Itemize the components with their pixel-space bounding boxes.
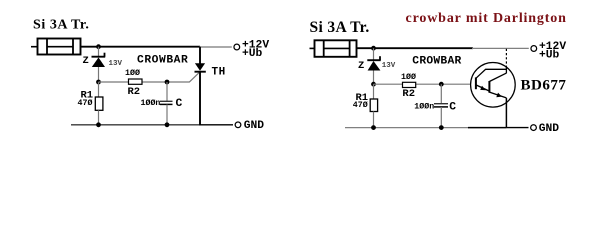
svg-text:R2: R2 bbox=[402, 88, 415, 100]
svg-text:47Ø: 47Ø bbox=[78, 98, 93, 108]
svg-text:Z: Z bbox=[83, 55, 89, 67]
svg-text:BD677: BD677 bbox=[521, 77, 567, 93]
svg-text:GND: GND bbox=[539, 123, 560, 135]
svg-text:R2: R2 bbox=[128, 86, 141, 98]
svg-text:1ØØn: 1ØØn bbox=[141, 98, 161, 108]
svg-text:CROWBAR: CROWBAR bbox=[412, 55, 461, 67]
svg-text:TH: TH bbox=[212, 66, 226, 78]
svg-text:13V: 13V bbox=[382, 62, 396, 70]
svg-text:Z: Z bbox=[358, 60, 364, 72]
svg-text:1ØØn: 1ØØn bbox=[414, 102, 434, 112]
svg-text:Si 3A Tr.: Si 3A Tr. bbox=[33, 18, 89, 33]
svg-text:CROWBAR: CROWBAR bbox=[137, 54, 188, 66]
svg-text:47Ø: 47Ø bbox=[353, 100, 368, 110]
svg-text:crowbar mit Darlington: crowbar mit Darlington bbox=[406, 11, 567, 26]
svg-text:+Ub: +Ub bbox=[242, 48, 263, 60]
svg-text:13V: 13V bbox=[109, 60, 123, 68]
svg-text:1ØØ: 1ØØ bbox=[125, 68, 140, 78]
svg-text:C: C bbox=[449, 101, 456, 113]
svg-text:1ØØ: 1ØØ bbox=[401, 72, 416, 82]
svg-text:GND: GND bbox=[244, 120, 265, 132]
svg-text:Si 3A Tr.: Si 3A Tr. bbox=[310, 19, 370, 36]
svg-text:+Ub: +Ub bbox=[539, 49, 560, 61]
svg-text:C: C bbox=[176, 98, 183, 110]
